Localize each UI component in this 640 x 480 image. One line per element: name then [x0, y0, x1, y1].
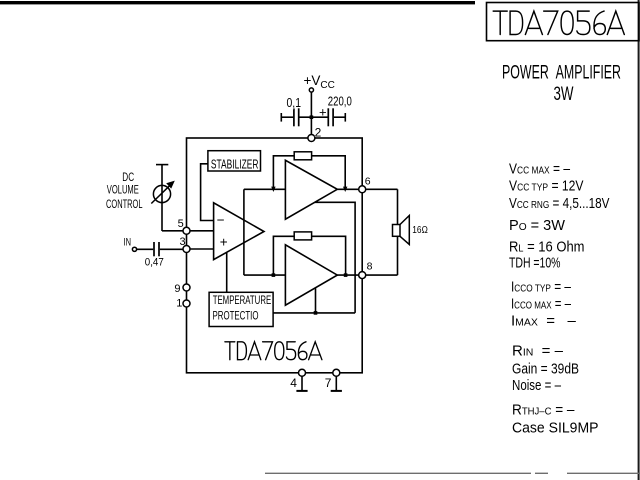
wire pin3 to amp	[190, 248, 214, 250]
wire U3 output to pin8	[337, 274, 359, 276]
potentiometer P1	[153, 185, 170, 202]
svg-text:STABILIZER: STABILIZER	[211, 158, 259, 172]
potentiometer arrow	[151, 186, 169, 204]
capacitor C1 0,1 plates	[294, 108, 299, 126]
pin 4 node	[299, 369, 306, 376]
svg-text:RIN = –: RIN = –	[512, 342, 564, 359]
pin 8 node	[359, 272, 366, 279]
svg-text:7: 7	[325, 376, 332, 390]
wire U2 output to pin6	[337, 188, 359, 190]
bottom border line	[265, 472, 640, 474]
wire Vcc rail left	[281, 116, 293, 118]
svg-text:8: 8	[367, 261, 373, 273]
svg-text:0,1: 0,1	[287, 95, 302, 110]
svg-text:+: +	[220, 234, 228, 249]
svg-text:+: +	[319, 105, 327, 120]
wire pot to pin 5	[162, 230, 183, 232]
svg-text:3W: 3W	[554, 84, 574, 105]
wire signal bus vertical	[243, 189, 245, 275]
pin 9 node	[183, 284, 190, 291]
svg-text:2: 2	[315, 125, 322, 139]
wire Vcc rail mid	[300, 116, 328, 118]
svg-text:TEMPERATURE: TEMPERATURE	[213, 293, 271, 307]
svg-text:16Ω: 16Ω	[412, 224, 428, 236]
op-amp U2 upper power stage	[285, 160, 337, 219]
wire U1 to temp block	[226, 253, 228, 293]
ground pin 7	[335, 376, 337, 391]
svg-text:PO = 3W: PO = 3W	[509, 217, 566, 234]
wire C3 to pin3	[160, 248, 184, 250]
capacitor C1 terminal tick	[280, 113, 282, 122]
wire lower amp control	[315, 288, 317, 313]
title text TDA7056A	[493, 11, 624, 34]
ground pin 4	[301, 376, 303, 391]
svg-text:9: 9	[174, 283, 180, 295]
wire lower amp input	[244, 274, 286, 276]
pin 1 node	[183, 300, 190, 307]
svg-text:POWER AMPLIFIER: POWER AMPLIFIER	[502, 63, 621, 84]
stabilizer box	[208, 151, 261, 171]
title box	[487, 3, 640, 41]
wire speaker bottom lead	[397, 236, 399, 275]
svg-text:5: 5	[178, 218, 184, 230]
Vcc supply terminal	[309, 88, 313, 92]
wire input to C3	[137, 248, 154, 250]
top border bar	[0, 1, 475, 4]
op-amp U3 lower power stage	[285, 245, 337, 305]
svg-text:DC: DC	[122, 172, 134, 184]
svg-text:Noise = –: Noise = –	[512, 377, 561, 394]
wire speaker to pin8	[366, 274, 398, 276]
svg-text:3: 3	[180, 236, 186, 248]
svg-text:220,0: 220,0	[328, 94, 352, 109]
svg-text:6: 6	[365, 176, 371, 188]
wire stabilizer to input amp	[201, 164, 214, 221]
junction arrow left R1	[271, 187, 275, 192]
control bus junction	[314, 311, 318, 315]
label TDA7056A center	[225, 342, 322, 360]
input terminal	[132, 247, 136, 251]
wire upper amp control	[315, 202, 356, 313]
potentiometer top terminal	[156, 164, 168, 166]
IC block TDA7056A outline	[187, 138, 363, 373]
wire pin5 to amp	[190, 230, 214, 232]
capacitor C2 220,0 plates	[328, 108, 333, 126]
capacitor C2 terminal tick	[344, 113, 346, 122]
speaker LS1	[393, 225, 401, 237]
svg-text:0,47: 0,47	[145, 256, 164, 268]
svg-text:VOLUME: VOLUME	[107, 185, 139, 197]
wire Vcc rail right	[334, 116, 345, 118]
junction R2 left	[272, 273, 276, 277]
pin 6 node	[359, 186, 366, 193]
pin 2 node	[308, 135, 315, 142]
svg-text:PROTECTIO: PROTECTIO	[213, 308, 259, 322]
temperature protection box	[209, 292, 273, 326]
wire Vcc vertical	[310, 92, 312, 138]
resistor R1 feedback	[294, 152, 311, 160]
svg-text:−: −	[217, 213, 225, 228]
wire R2 feedback loop	[273, 236, 345, 275]
junction arrow right R1	[343, 187, 347, 192]
svg-text:CONTROL: CONTROL	[106, 199, 143, 211]
junction R2 right	[344, 273, 348, 277]
svg-text:1: 1	[176, 297, 182, 309]
svg-text:TDH =10%: TDH =10%	[509, 255, 561, 272]
capacitor C3 0,47 plates	[154, 242, 159, 256]
svg-text:Gain = 39dB: Gain = 39dB	[512, 360, 579, 377]
wire temp to control bus	[273, 312, 355, 314]
svg-text:IN: IN	[124, 236, 132, 248]
wire pin6 to speaker	[366, 188, 398, 190]
pin 7 node	[333, 369, 340, 376]
pin 5 node	[183, 227, 190, 234]
resistor R2 feedback	[294, 232, 311, 240]
right page border	[638, 0, 640, 480]
pin 3 node	[183, 246, 190, 253]
wire R1 feedback loop	[273, 156, 345, 188]
wire pot stem	[161, 165, 163, 231]
svg-text:4: 4	[290, 376, 297, 390]
svg-text:Case SIL9MP: Case SIL9MP	[512, 420, 599, 437]
op-amp U1 input stage	[214, 203, 264, 260]
junction Vcc rail	[310, 115, 314, 119]
wire speaker top lead	[397, 189, 399, 224]
wire upper amp input	[244, 188, 286, 190]
